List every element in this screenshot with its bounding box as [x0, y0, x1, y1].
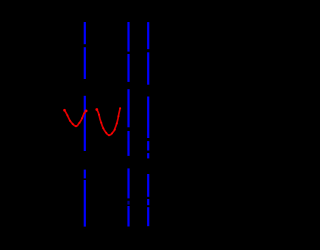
bead dots along branch 1: [66, 112, 85, 127]
asymptote line 3 (blue dashed vertical at x=148.2): [147, 22, 149, 226]
marker dot at left end of branch 1: [63, 109, 66, 112]
asymptote line 2 (blue dashed vertical at x=128.5): [127, 22, 129, 227]
red curve branch 2 (right U): [95, 107, 121, 136]
marker dot at right end of branch 1: [85, 110, 88, 113]
red curve branch 1 (left U between asymptotes): [63, 109, 87, 127]
marker dot at left end of branch 2: [95, 108, 98, 111]
bead dots along branch 2: [98, 107, 121, 136]
asymptote line 1 (blue dashed vertical at x=84.8): [84, 22, 86, 227]
